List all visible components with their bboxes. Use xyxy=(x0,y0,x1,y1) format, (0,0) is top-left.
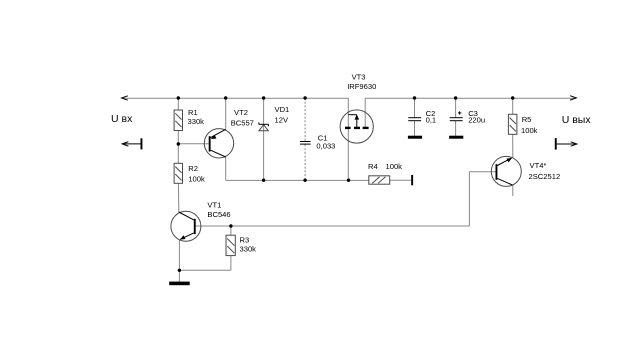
svg-text:330k: 330k xyxy=(188,117,205,126)
svg-text:U вх: U вх xyxy=(111,113,133,125)
svg-text:2SC2512: 2SC2512 xyxy=(529,172,561,181)
svg-text:VD1: VD1 xyxy=(275,105,290,114)
svg-text:220u: 220u xyxy=(468,116,485,125)
svg-text:R3: R3 xyxy=(240,236,250,245)
svg-text:100k: 100k xyxy=(188,175,205,184)
svg-text:R1: R1 xyxy=(188,108,198,117)
svg-text:IRF9630: IRF9630 xyxy=(347,82,376,91)
svg-text:0,033: 0,033 xyxy=(316,142,335,151)
svg-text:R2: R2 xyxy=(188,164,198,173)
svg-text:BC546: BC546 xyxy=(207,210,230,219)
svg-text:VT4*: VT4* xyxy=(530,161,547,170)
svg-text:VT2: VT2 xyxy=(234,108,248,117)
svg-text:100k: 100k xyxy=(521,126,538,135)
svg-text:100k: 100k xyxy=(386,162,403,171)
svg-text:BC557: BC557 xyxy=(231,119,254,128)
svg-text:U вых: U вых xyxy=(562,114,592,126)
svg-text:VT3: VT3 xyxy=(352,72,366,81)
svg-text:12V: 12V xyxy=(275,115,289,124)
svg-text:330k: 330k xyxy=(240,245,257,254)
svg-text:R5: R5 xyxy=(522,115,532,124)
svg-text:R4: R4 xyxy=(368,162,378,171)
svg-text:VT1: VT1 xyxy=(207,201,221,210)
svg-text:0,1: 0,1 xyxy=(426,116,437,125)
